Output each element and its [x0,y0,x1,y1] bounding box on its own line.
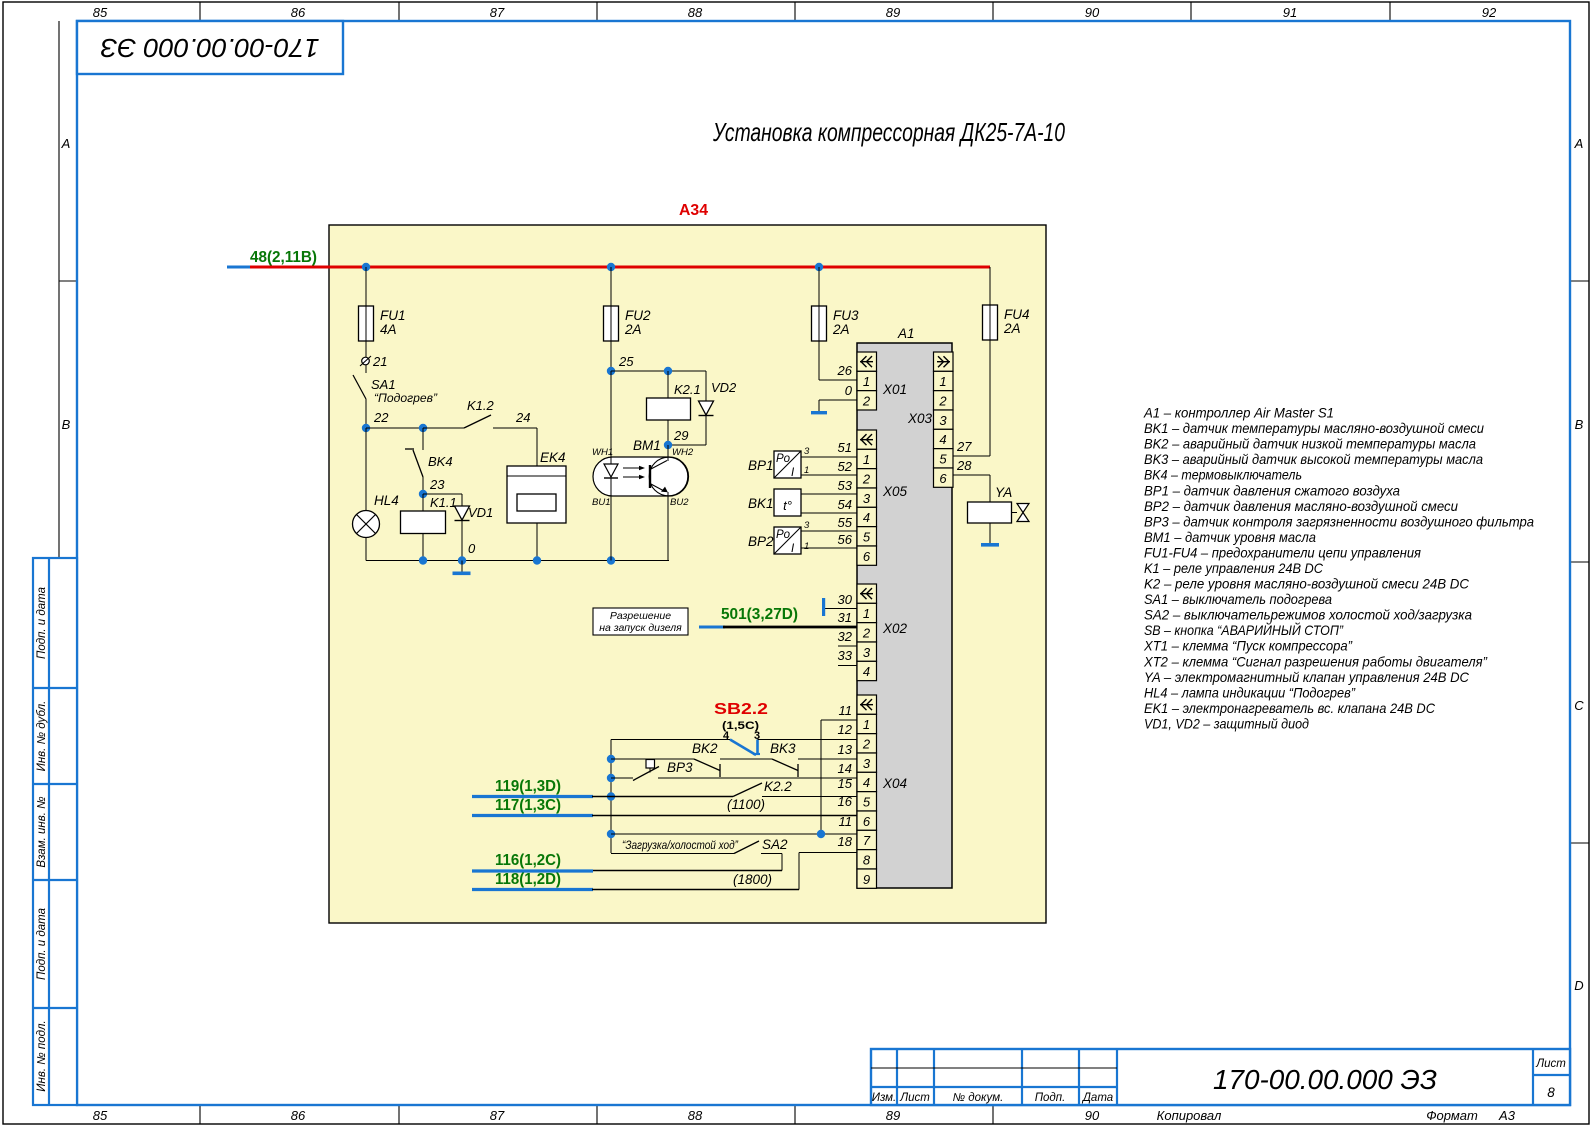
connector X03 pin cell 1 [934,371,954,390]
svg-text:A1: A1 [897,326,915,341]
svg-text:56: 56 [838,532,853,547]
wire 117 to X04 pin 6 [592,794,857,816]
svg-text:25: 25 [618,354,634,369]
svg-text:X03: X03 [907,411,933,426]
svg-text:0: 0 [468,541,476,556]
svg-text:EK1 – электронагреватель вс. к: EK1 – электронагреватель вс. клапана 24В… [1144,700,1436,716]
wire 116 lead-in (blue) [472,869,593,872]
svg-text:BK3: BK3 [770,741,796,756]
wire 26: FU3 to X01 pin 1 [819,341,857,380]
svg-text:1: 1 [804,541,809,552]
junction SA2 row [607,830,615,838]
wire BU1 down to bus [610,496,612,561]
svg-text:С: С [1574,698,1584,713]
svg-text:29: 29 [673,428,688,443]
svg-text:X05: X05 [882,484,908,499]
svg-text:2A: 2A [832,322,850,337]
svg-text:SA2 – выключательрежимов холос: SA2 – выключательрежимов холостой ход/за… [1144,607,1472,623]
svg-text:55: 55 [838,515,853,530]
wire 54: BK1 to X05 pin 4 [801,497,857,513]
svg-text:51: 51 [838,440,852,455]
svg-text:1: 1 [863,717,870,732]
annotation: Razreshenie na zapusk dizelya [593,608,688,635]
wire 116 to SA2 [593,854,782,871]
svg-text:Po: Po [776,529,791,541]
legend [1143,405,1534,732]
svg-text:BP2: BP2 [748,534,774,549]
wire: left riser to SB2.2 [611,739,730,741]
fuse FU3 [812,267,859,341]
connector X05 pin cell 5 [857,527,877,546]
svg-text:BK4 – термовыключатель: BK4 – термовыключатель [1144,467,1302,483]
svg-text:2A: 2A [624,322,642,337]
svg-text:53: 53 [838,478,853,493]
wire 501 lead-in (blue) [699,626,725,629]
svg-text:4: 4 [863,664,870,679]
svg-text:Po: Po [776,453,791,465]
svg-text:2: 2 [862,625,871,640]
module A34 label [679,202,708,219]
svg-text:18: 18 [838,834,853,849]
connector X02 pin cell 1 [857,603,877,622]
svg-text:5: 5 [939,451,947,466]
junction BU1/bus [607,556,615,564]
net label 116(1,2C) [495,852,561,869]
wire 48 lead-in (blue) [227,266,252,269]
net label 117(1,3C) [495,797,561,814]
svg-text:87: 87 [490,1108,505,1123]
wire 25 to K2.1/VD2 [611,367,706,375]
wire 119 lead-in (blue) [472,795,593,798]
svg-text:№ докум.: № докум. [953,1092,1004,1104]
svg-text:88: 88 [688,5,703,20]
riser x821 wire [820,720,822,834]
svg-text:2A: 2A [1003,321,1021,336]
junction on bus at FU2 [607,263,615,271]
svg-text:SA1: SA1 [371,377,396,392]
wire 0: X01 pin 2 to ground [811,383,857,414]
svg-text:85: 85 [93,1108,108,1123]
connector X01 header [857,352,877,371]
svg-text:52: 52 [838,459,853,474]
wire BU2 down to bus [667,496,669,561]
wire 12: SB2.2 to X04 pin 2 [758,722,858,740]
sensor BP1 [748,451,801,479]
net label 118(1,2D) [495,871,561,888]
svg-text:89: 89 [886,1108,900,1123]
svg-text:31: 31 [838,610,852,625]
svg-text:BK1 – датчик температуры масля: BK1 – датчик температуры масляно-воздушн… [1144,420,1484,436]
svg-text:SA1 – выключатель подогрева: SA1 – выключатель подогрева [1144,591,1332,607]
svg-text:K2.2: K2.2 [764,779,792,794]
connector X02 pin cell 2 [857,623,877,642]
junction 119 row [607,792,615,800]
connector X05 pin cell 2 [857,469,877,488]
svg-text:VD2: VD2 [711,380,737,395]
svg-text:4: 4 [863,510,870,525]
svg-text:Подп. и дата: Подп. и дата [36,587,48,659]
connector X03 pin cell 3 [934,410,954,429]
svg-text:Инв. № подл.: Инв. № подл. [36,1020,48,1091]
svg-text:5: 5 [863,529,871,544]
svg-text:K1.2: K1.2 [467,398,495,413]
svg-text:3: 3 [804,520,810,531]
svg-text:89: 89 [886,5,900,20]
wire 118 to X04 pin 8 [592,834,857,890]
svg-text:86: 86 [291,1108,306,1123]
svg-text:501(3,27D): 501(3,27D) [721,606,798,623]
svg-text:0: 0 [845,383,853,398]
svg-text:3: 3 [863,756,871,771]
svg-text:EK4: EK4 [540,450,566,465]
svg-text:FU3: FU3 [833,308,859,323]
switch SA2 [611,837,788,854]
svg-text:BP1: BP1 [748,458,774,473]
svg-text:BM1 – датчик уровня масла: BM1 – датчик уровня масла [1144,529,1316,545]
svg-text:13: 13 [838,742,853,757]
svg-text:11: 11 [839,703,853,718]
svg-text:28: 28 [956,458,972,473]
svg-text:YA: YA [995,485,1012,500]
module A34 boundary [329,225,1046,923]
connector X01 label [882,382,907,397]
svg-text:22: 22 [373,410,389,425]
wire 55: BP2 pin 3 to X05 pin 5 [801,515,857,531]
connector X04 pin cell 1 [857,714,877,733]
svg-text:BK2 – аварийный датчик низкой: BK2 – аварийный датчик низкой температур… [1144,436,1476,452]
svg-text:BP2 – датчик давления масляно-: BP2 – датчик давления масляно-воздушной … [1144,498,1458,514]
svg-text:K1 – реле управления 24В DC: K1 – реле управления 24В DC [1144,560,1324,576]
svg-text:92: 92 [1482,5,1497,20]
svg-text:SA2: SA2 [762,837,788,852]
net label 48(2,11B) [250,249,317,266]
node 0 / ground [453,541,477,575]
connector X02 pin cell 3 [857,642,877,661]
junction on bus at FU3 [815,263,823,271]
svg-text:Взам. инв. №: Взам. инв. № [36,796,48,868]
wire from bus corner to FU4 [989,267,991,305]
svg-text:XT2 – клемма “Сигнал разрешени: XT2 – клемма “Сигнал разрешения работы д… [1143,653,1488,669]
fuse FU4 [983,305,1030,340]
wire 52: BP1 pin 1 to X05 pin 2 [801,459,857,476]
svg-text:26: 26 [837,363,853,378]
connector X04 pin cell 2 [857,734,877,753]
junction VD1/bus [458,556,466,564]
connector X01 pin cell 1 [857,371,877,390]
junction EK4/bus [533,556,541,564]
switch SA1 [353,365,438,428]
wire 11 to X04 pin 7 [611,814,857,834]
contact BK3 [770,741,857,777]
svg-text:170-00.00.000 ЭЗ: 170-00.00.000 ЭЗ [1213,1064,1437,1095]
svg-text:VD1: VD1 [468,505,493,520]
title block [871,1049,1570,1105]
junction on bus at FU1 [362,263,370,271]
sensor BP2 [748,527,801,555]
svg-text:117(1,3C): 117(1,3C) [495,797,561,814]
connector X02 header [857,584,877,603]
wire 28: X03 pin 6 to valve YA [953,458,990,502]
svg-text:BP3 – датчик контроля загрязне: BP3 – датчик контроля загрязненности воз… [1144,513,1534,529]
svg-text:54: 54 [838,497,852,512]
svg-text:33: 33 [838,648,853,663]
wire 117 lead-in (blue) [472,814,593,817]
svg-text:BU1: BU1 [592,497,610,508]
pressure contact BP3 [611,760,857,781]
svg-text:Лист: Лист [1535,1058,1566,1070]
node 22 [362,410,389,432]
connector X03 pin cell 2 [934,391,954,410]
node 25 [607,341,634,375]
wire 11: riser to X04 pin 1 [821,703,857,740]
svg-text:BK4: BK4 [428,454,453,469]
optocoupler BM1 [592,371,694,508]
wire 53: BK1 to X05 pin 3 [801,478,857,494]
bottom common wire [366,560,669,562]
svg-text:16: 16 [838,794,853,809]
svg-text:2: 2 [862,393,871,408]
svg-text:FU4: FU4 [1004,307,1030,322]
connector X03 label [907,411,933,426]
svg-text:WH1: WH1 [592,447,613,458]
connector X05 pin cell 4 [857,507,877,526]
svg-text:116(1,2C): 116(1,2C) [495,852,561,869]
svg-text:BK1: BK1 [748,496,774,511]
svg-text:32: 32 [838,629,853,644]
connector X02 pin cell 4 [857,661,877,680]
stub 30 with mark [822,592,857,616]
wire 22 to BK4 branch [366,424,427,432]
svg-text:91: 91 [1283,5,1297,20]
svg-text:21: 21 [372,354,387,369]
svg-text:YA – электромагнитный клапан у: YA – электромагнитный клапан управления … [1144,669,1470,685]
wire 501: to X02 pin 2 [723,610,857,627]
svg-text:Установка компрессорная ДК25-7: Установка компрессорная ДК25-7А-10 [712,117,1065,147]
connector X04 pin cell 3 [857,753,877,772]
svg-text:170-00.00.000 ЭЗ: 170-00.00.000 ЭЗ [100,33,319,63]
heater EK4 [507,450,566,561]
connector X03 header [934,352,954,371]
svg-text:1: 1 [863,452,870,467]
svg-text:BM1: BM1 [633,438,661,453]
svg-text:3: 3 [863,491,871,506]
svg-text:(1800): (1800) [733,872,772,887]
svg-text:Инв. № дубл.: Инв. № дубл. [36,701,48,772]
svg-text:В: В [1575,417,1584,432]
junction BK2 row [607,755,615,763]
button SB2.2 contact (blue) [730,740,760,756]
svg-text:Изм.: Изм. [872,1092,897,1104]
svg-text:87: 87 [490,5,505,20]
junction K1.1/bus [419,556,427,564]
net label 501(3,27D) [721,606,798,623]
connector X04 pin cell 7 [857,830,877,849]
svg-text:А: А [61,136,71,151]
svg-text:WH2: WH2 [672,447,694,458]
svg-text:t°: t° [783,498,792,513]
svg-text:FU1: FU1 [380,308,406,323]
svg-text:А3: А3 [1498,1108,1516,1123]
fuse FU1 [359,267,406,341]
svg-text:3: 3 [939,413,947,428]
diode VD2 [668,371,737,445]
svg-text:Дата: Дата [1081,1092,1113,1104]
svg-text:X04: X04 [882,776,907,791]
svg-text:А34: А34 [679,202,708,219]
svg-text:6: 6 [863,814,871,829]
svg-text:D: D [1574,978,1583,993]
connector X03 pin cell 6 [934,468,954,487]
svg-text:А: А [1574,136,1584,151]
svg-text:11: 11 [839,814,853,829]
wire 56: BP2 pin 1 to X05 pin 6 [801,532,857,552]
svg-text:4: 4 [939,432,946,447]
svg-text:BK3 – аварийный датчик высокой: BK3 – аварийный датчик высокой температу… [1144,451,1483,467]
stub 32 [838,629,857,646]
svg-text:2: 2 [862,736,871,751]
connector X04 pin cell 5 [857,792,877,811]
svg-text:1: 1 [863,374,870,389]
connector X04 pin cell 8 [857,850,877,869]
svg-text:HL4: HL4 [374,493,399,508]
svg-text:88: 88 [688,1108,703,1123]
svg-text:BP1 – датчик давления сжатого: BP1 – датчик давления сжатого воздуха [1144,482,1400,498]
contact K1.2 [423,398,537,428]
diode VD1 [423,494,493,561]
svg-text:23: 23 [429,477,445,492]
svg-text:4: 4 [863,775,870,790]
connector X04 label [882,776,907,791]
node 29 [664,428,689,449]
svg-text:Формат: Формат [1426,1108,1478,1123]
connector X01 pin cell 2 [857,391,877,410]
svg-text:7: 7 [863,833,871,848]
svg-text:4: 4 [723,730,730,742]
svg-text:SB2.2: SB2.2 [714,701,768,718]
relay coil K1.1 [401,494,457,561]
svg-text:2: 2 [862,471,871,486]
svg-text:FU1-FU4 – предохранители цепи: FU1-FU4 – предохранители цепи управления [1144,544,1421,560]
svg-text:3: 3 [863,645,871,660]
wire 24 down to EK4 [536,428,538,466]
svg-text:XT1 – клемма “Пуск компрессора: XT1 – клемма “Пуск компрессора” [1143,638,1353,654]
svg-text:BP3: BP3 [667,760,693,775]
svg-text:9: 9 [863,872,870,887]
svg-text:90: 90 [1085,1108,1100,1123]
svg-text:1: 1 [939,374,946,389]
junction BP3 row [607,774,615,782]
wire 51: BP1 pin 3 to X05 pin 1 [801,440,857,457]
left riser wire [610,740,612,854]
connector X03 pin cell 5 [934,449,954,468]
svg-text:85: 85 [93,5,108,20]
connector X05 pin cell 6 [857,546,877,565]
wire 118 lead-in (blue) [472,888,593,891]
svg-text:BU2: BU2 [670,497,689,508]
svg-text:8: 8 [1547,1085,1555,1100]
thermal contact BK4 [405,428,453,494]
svg-text:“Загрузка/холостой ход”: “Загрузка/холостой ход” [622,840,739,852]
svg-text:14: 14 [838,761,852,776]
svg-text:3: 3 [804,446,810,457]
net label 119(1,3D) [495,778,561,795]
contact BK2 [611,741,772,777]
connector X05 header [857,430,877,449]
svg-text:Лист: Лист [899,1092,930,1104]
fuse FU2 [604,267,651,341]
sensor BK1 [748,489,801,516]
ground under YA [981,523,999,547]
svg-text:27: 27 [956,439,972,454]
svg-text:K2 – реле уровня масляно-возду: K2 – реле уровня масляно-воздушной смеси… [1144,576,1470,592]
svg-text:(1100): (1100) [727,797,765,812]
svg-text:5: 5 [863,794,871,809]
svg-text:119(1,3D): 119(1,3D) [495,778,561,795]
svg-text:4A: 4A [380,322,397,337]
svg-text:X01: X01 [882,382,907,397]
svg-text:VD1, VD2 – защитный диод: VD1, VD2 – защитный диод [1144,716,1309,732]
button SB2.2 labels [714,701,768,742]
connector X04 pin cell 6 [857,811,877,830]
svg-text:24: 24 [515,410,530,425]
svg-text:30: 30 [838,592,853,607]
svg-text:12: 12 [838,722,853,737]
wire FU1 to terminal 21 [365,341,367,357]
svg-text:Подп. и дата: Подп. и дата [36,908,48,980]
svg-text:1: 1 [804,465,809,476]
connector X04 pin cell 9 [857,869,877,888]
stub 33 [838,648,857,666]
junction riser/pin7 [817,830,825,838]
stamp: document number (rotated) [77,21,343,74]
svg-text:FU2: FU2 [625,308,651,323]
svg-text:15: 15 [838,776,853,791]
wire 27: X03 pin 5 to FU4 [953,340,990,456]
wire 48 power bus (red) [250,266,990,269]
svg-text:Разрешение: Разрешение [610,610,671,622]
drawing title [712,117,1065,147]
svg-text:HL4 – лампа индикации “Подогре: HL4 – лампа индикации “Подогрев” [1144,684,1356,700]
svg-text:Копировал: Копировал [1157,1108,1222,1123]
svg-text:48(2,11B): 48(2,11B) [250,249,317,266]
svg-text:K1.1: K1.1 [430,495,457,510]
connector X04 header [857,695,877,714]
svg-text:A1 – контроллер Air Master S1: A1 – контроллер Air Master S1 [1143,405,1334,421]
svg-text:SB – кнопка “АВАРИЙНЫЙ СТОП”: SB – кнопка “АВАРИЙНЫЙ СТОП” [1144,621,1344,638]
svg-text:6: 6 [863,549,871,564]
svg-text:6: 6 [939,471,947,486]
controller A1 body [857,326,952,888]
terminal 21 [360,354,387,369]
relay coil K2.1 [647,371,701,445]
svg-text:8: 8 [863,852,871,867]
connector X05 pin cell 1 [857,449,877,468]
connector X05 label [882,484,908,499]
svg-text:K2.1: K2.1 [674,382,701,397]
svg-text:2: 2 [938,393,947,408]
lamp HL4 [353,428,399,561]
svg-text:118(1,2D): 118(1,2D) [495,871,561,888]
connector X04 pin cell 4 [857,772,877,791]
svg-text:Подп.: Подп. [1035,1092,1066,1104]
node 23 [419,477,445,498]
signature blocks [33,558,77,1105]
connector X05 pin cell 3 [857,488,877,507]
svg-text:В: В [62,417,71,432]
svg-text:86: 86 [291,5,306,20]
connector X03 pin cell 4 [934,429,954,448]
contact K2.2 [592,776,857,797]
